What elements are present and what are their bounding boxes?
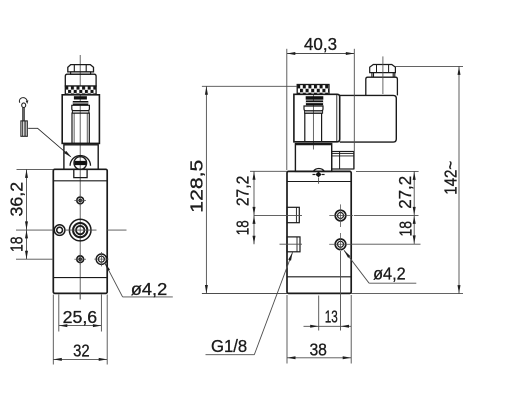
arrows 32 [53,358,62,361]
upper mounting screw [335,210,346,221]
big center port [69,219,91,241]
svg-text:27,2: 27,2 [232,176,252,207]
dim 38 [286,295,288,364]
arrows 38 [287,356,296,359]
screw centerline [382,56,384,94]
cable gland block [366,77,398,95]
dim 142~ [395,65,463,67]
neck under hex cap [71,72,91,74]
svg-text:ø4,2: ø4,2 [373,263,406,283]
svg-text:40,3: 40,3 [304,34,337,54]
lower mounting screw [335,239,346,250]
svg-text:13: 13 [325,307,338,327]
rotation arc [19,98,27,103]
plunger ring 2 side [306,100,323,105]
dim 36,2 / 18 extension lines [17,168,54,170]
arrows 36,2/18 [25,169,28,178]
hex cap of manual override [68,65,94,72]
leader diameter 4,2 right [344,250,369,283]
dim 27,2 / 18 left side [250,170,287,172]
lower port boss side [287,237,300,252]
knurled ring side [297,85,329,95]
screwdriver shaft [22,108,24,121]
dim 13 [318,296,320,331]
screw slot [75,161,86,165]
bump arc on body top [313,169,324,172]
svg-text:25,6: 25,6 [63,307,98,327]
svg-text:27,2: 27,2 [395,176,415,209]
arrows 27,2/18 right [413,171,416,180]
centerline overshoot below body [79,293,81,299]
plunger collar side [304,106,323,111]
svg-text:32: 32 [73,341,90,361]
leader diameter 4,2 left [105,263,123,297]
body top band line [53,180,107,182]
valve body side [287,171,351,293]
arrow leader 4,2 left [105,263,110,271]
svg-text:18: 18 [396,221,416,236]
tab under override block [74,169,87,177]
gland washer [371,73,373,78]
arrow leader 4,2 right [344,250,350,258]
plunger ring 2 [73,101,89,105]
dim 128,5 [202,85,297,87]
plunger ring 1 side [306,96,324,100]
screwdriver symbol [19,98,71,158]
svg-text:18: 18 [6,237,26,253]
upper port boss side [287,207,299,222]
diamond center mark [315,172,322,177]
leader G1/8 [254,252,292,355]
terminal bracket [332,152,354,170]
lower right hole [96,254,106,264]
svg-text:38: 38 [309,340,327,360]
svg-text:G1/8: G1/8 [211,336,247,356]
lower small hole [77,256,84,263]
arrows 27,2/18 left [253,171,256,180]
connector screw head [370,65,396,73]
plunger tube side [305,113,322,142]
manual override block [64,145,98,170]
arrows 40,3 [287,52,296,55]
arrow G1/8 leader [288,252,292,261]
svg-text:142~: 142~ [440,161,460,195]
left side hole [54,225,65,236]
top small hole [77,197,84,204]
boss arc [70,155,90,165]
dim 25,6 extensions [58,295,60,332]
centerline left figure [79,55,81,300]
dim line 36,2 and 18 [26,169,28,259]
adapter plate side [295,144,331,172]
dim 27,2 / 18 right side [356,170,419,172]
body bottom band line side [287,276,351,278]
coil body [62,95,99,144]
arrows 142~ [458,66,461,75]
connector housing [340,95,397,142]
svg-text:128,5: 128,5 [187,160,207,213]
body bottom band line [53,277,107,279]
plunger tube [72,113,89,143]
plunger groove [72,111,89,114]
svg-text:18: 18 [233,220,253,235]
plunger ring 1 [74,96,87,99]
arrows 25,6 [59,324,68,327]
body top band line side [287,181,351,183]
solenoid centerline side view [312,89,314,150]
plunger collar [72,105,90,110]
arrows 128,5 [205,86,208,95]
plunger groove side [305,111,323,113]
override screw circle [74,157,87,170]
valve body front [53,169,107,293]
svg-text:36,2: 36,2 [6,182,26,217]
knurled ring [65,86,96,95]
flange ring [65,74,96,86]
screwdriver handle [21,121,27,136]
dim 32 extensions [52,295,54,365]
svg-text:ø4,2: ø4,2 [131,279,168,299]
coil body side [294,94,340,142]
leader from screwdriver to override screw [28,128,70,156]
dim 40,3 [286,49,288,170]
screwdriver tip circle [22,103,26,108]
arrows 13 (outside) [310,325,319,328]
